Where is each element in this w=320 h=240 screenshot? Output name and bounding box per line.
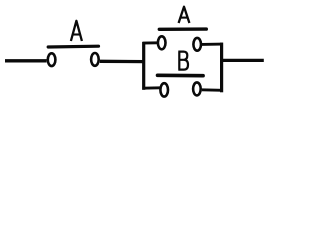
label A (left switch): [71, 21, 82, 41]
switch contact terminal circle (left switch, left): [48, 53, 56, 66]
label A (top branch): [179, 7, 190, 23]
switch B blade bar (bottom branch): [158, 74, 204, 78]
wire output right: [221, 59, 264, 62]
wire top-left stub of parallel block: [143, 41, 158, 44]
switch A2 blade bar (top branch): [159, 27, 206, 31]
switch contact terminal circle (top branch, left): [158, 36, 166, 49]
wire right vertical of parallel block: [220, 43, 223, 93]
switch contact terminal circle (top branch, right): [193, 38, 201, 51]
wire bottom-right stub of parallel block: [202, 88, 223, 91]
wire from left switch to junction: [100, 60, 145, 64]
switch contact terminal circle (left switch, right): [91, 53, 99, 66]
wire bottom-left stub of parallel block: [143, 86, 160, 89]
wire left vertical of parallel block: [142, 42, 145, 90]
switch contact terminal circle (bottom branch, left): [160, 83, 168, 96]
switch A1 blade bar: [48, 45, 98, 49]
wire top-right stub of parallel block: [202, 43, 223, 46]
wire input left: [5, 59, 47, 62]
switch contact terminal circle (bottom branch, right): [193, 82, 201, 95]
label B (bottom branch): [178, 52, 188, 70]
